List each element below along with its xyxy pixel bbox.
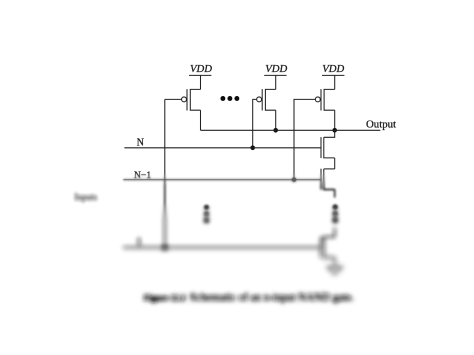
caption: Figure 12.2 Schematic of an n-input NAND gate. <box>144 292 354 304</box>
faint ghost mark below input ellipsis <box>197 229 219 231</box>
svg-text:Figure 12.2Schematic of an n-i: Figure 12.2Schematic of an n-input NAND … <box>144 292 354 304</box>
svg-text:Inputs: Inputs <box>75 192 98 202</box>
label Inputs <box>75 192 98 202</box>
